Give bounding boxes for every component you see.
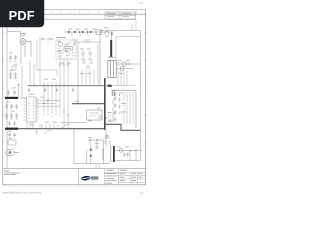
resistor R815: [96, 30, 102, 34]
capacitor C802 pair with ground: [9, 72, 17, 79]
capacitor C820 hang pair: [28, 88, 74, 93]
snubber sub parts: [72, 40, 90, 44]
primary box left edge: [78, 42, 100, 104]
ic KA7552 in shield box: [64, 47, 73, 51]
secondary rectifier wire: [116, 64, 140, 69]
wire AC input horizontal: [7, 31, 20, 38]
cold bus wire y124: [106, 124, 140, 130]
secondary inner box: [116, 37, 141, 63]
wire bridge neg down: [21, 66, 23, 98]
wire posistor out: [18, 128, 36, 130]
standby hang caps: [123, 153, 129, 158]
switching fet box: [87, 110, 103, 120]
wire secondary rail thin: [113, 85, 136, 87]
diode D811: [68, 31, 71, 34]
chain stubs down: [72, 32, 88, 36]
bus top marks: [45, 125, 62, 129]
photocoupler PC801: [58, 42, 63, 56]
node dot junction: [18, 84, 19, 85]
small parts near diodes: [118, 63, 131, 65]
node dots out: [129, 150, 130, 151]
wire top standby: [104, 130, 110, 146]
wire secondary drops: [118, 71, 127, 86]
transformer T851 winding: [113, 146, 115, 162]
output box inner verticals: [124, 92, 133, 124]
capacitor C809 row: [8, 133, 16, 138]
top horizontal rail wire: [7, 19, 136, 21]
bus drop hook: [36, 129, 38, 135]
outer bottom faint line: [3, 185, 146, 187]
transformer T801 secondary bar: [104, 78, 106, 130]
samsung wordmark lines: [91, 177, 99, 180]
snubber chain wire y32: [64, 31, 105, 33]
node blob secondary: [108, 85, 112, 87]
caps on box verticals: [59, 64, 69, 65]
capacitor C803 pair: [7, 90, 16, 96]
shield box inner parts: [58, 43, 75, 60]
node chain dot2: [50, 38, 51, 39]
hot ground bus wire y103.7: [72, 103, 105, 105]
shield box dashed: [56, 40, 76, 60]
shield box inner labels: [57, 41, 69, 52]
wire left vertical bus: [6, 20, 8, 169]
capacitor C808 pair: [8, 121, 16, 126]
posistor TH801: [5, 128, 18, 130]
transformer T851 left bar: [110, 146, 112, 162]
diode D832 circle: [120, 67, 124, 71]
capacitor cluster C805 row1: [5, 104, 18, 110]
snubber cap C815: [105, 31, 113, 37]
capacitor C801 pair: [9, 55, 17, 62]
primary components cluster: [81, 52, 93, 68]
secondary bus y86 right: [106, 85, 113, 87]
capacitor cluster C806 row2 with grounds: [5, 113, 18, 119]
cap C852: [96, 146, 99, 150]
wire junction drop: [18, 84, 20, 97]
transformer T801 core box: [108, 61, 116, 78]
diode D813: [82, 31, 85, 34]
small parts standby top: [105, 142, 111, 144]
sheet border frame: [3, 10, 146, 186]
wire label hook: [62, 125, 70, 129]
resistor R801: [12, 66, 16, 70]
output cap column: [114, 96, 117, 122]
relay RL801: [8, 140, 16, 145]
wire filter out: [18, 97, 26, 99]
standby section box: [74, 129, 110, 164]
svg-text:PDF: PDF: [9, 8, 35, 23]
PDF badge: [0, 0, 44, 27]
line filter LF801: [5, 97, 18, 99]
node dot2: [87, 31, 89, 33]
wire box bottom verticals: [60, 60, 68, 86]
wire bridge outputs: [21, 42, 31, 65]
wire zener: [90, 145, 92, 164]
secondary box outline: [100, 25, 141, 161]
svg-text:www.DataSheet4U.com_schematics: www.DataSheet4U.com_schematics: [3, 191, 42, 194]
node chain dot: [42, 38, 43, 39]
vertical end marks: [43, 110, 69, 116]
standby chain wire: [88, 140, 104, 164]
node dots cold: [105, 117, 110, 121]
bus label hook: [44, 131, 52, 134]
svg-text:1/2: 1/2: [139, 1, 144, 5]
diode D812: [74, 31, 77, 34]
IC drop wires to bus: [27, 122, 42, 129]
border zone ticks: [1, 11, 147, 143]
wires to title area: [96, 164, 99, 168]
wire y70 horizontal: [36, 70, 57, 76]
primary vertical wires: [82, 44, 98, 86]
revision table text: [107, 13, 131, 17]
output box parts: [113, 98, 121, 114]
output box left verticals: [112, 90, 114, 96]
output box rounded: [112, 90, 137, 128]
IC801 pin dots: [29, 100, 35, 119]
wire right drop from rail: [135, 20, 137, 30]
title block note text: [4, 171, 20, 175]
standby out wire: [115, 151, 142, 161]
bridge rectifier D801: [20, 39, 26, 45]
node dots standby: [89, 139, 90, 140]
node dot: [79, 31, 81, 33]
standby aux bar: [102, 149, 104, 161]
IC801 with pins: [27, 97, 37, 122]
wire IC bus verticals: [30, 60, 68, 129]
title block divider: [77, 169, 79, 186]
AC inlet P801: [6, 149, 19, 155]
transformer T801 primary winding: [110, 40, 112, 58]
samsung logo ellipse: [81, 175, 91, 181]
left chain parts row: [40, 38, 54, 41]
bridge pin dots: [20, 38, 27, 45]
node dots output: [114, 94, 115, 95]
node junction: [47, 100, 48, 101]
bridge label: [21, 33, 26, 35]
transformer label: [108, 56, 115, 59]
fet box inner: [89, 113, 99, 116]
diode D851 circle: [119, 149, 123, 153]
component ref labels pepper: [6, 28, 130, 148]
diode D814: [90, 31, 93, 34]
long bottom bus y128.7: [18, 128, 105, 130]
zener ZD851: [89, 148, 92, 157]
title table texts: [105, 170, 142, 184]
cold bus parts: [98, 113, 116, 122]
node junction2: [43, 103, 44, 104]
diode D831 circle: [122, 62, 126, 66]
main bus wire y86: [28, 85, 105, 87]
bus stub marks: [34, 84, 72, 86]
wire left verticals: [37, 40, 40, 86]
revision table top right: [105, 12, 136, 19]
svg-text:1/2: 1/2: [140, 191, 144, 195]
IC801 pin stubs: [24, 99, 40, 120]
title table: [104, 169, 145, 186]
wire transformer top: [100, 31, 111, 86]
shield box label: [56, 36, 66, 39]
wire IC horizontals: [37, 101, 61, 107]
wire below fet: [60, 122, 87, 124]
